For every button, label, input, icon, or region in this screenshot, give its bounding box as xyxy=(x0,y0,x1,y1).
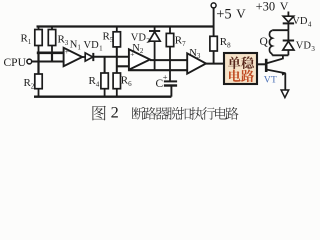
diode VD3 xyxy=(283,30,294,55)
svg-text:+: + xyxy=(163,72,168,82)
svg-text:7: 7 xyxy=(182,40,186,48)
svg-text:2: 2 xyxy=(140,47,144,55)
zener VD2 xyxy=(149,27,160,71)
svg-text:3: 3 xyxy=(65,39,69,47)
resistor R6 xyxy=(113,73,120,97)
op-amp N2 label xyxy=(132,43,144,55)
resistor R3 label xyxy=(58,34,69,48)
svg-text:V: V xyxy=(280,0,289,13)
op-amp N1 xyxy=(64,47,83,66)
CPU label xyxy=(4,57,27,69)
capacitor C xyxy=(164,81,177,96)
svg-text:CPU: CPU xyxy=(4,57,27,69)
resistor R4 label xyxy=(89,75,100,89)
resistor R8 label xyxy=(220,36,231,50)
svg-text:VD: VD xyxy=(131,33,147,44)
caption: Fig.2 breaker trip execution circuit xyxy=(92,103,238,122)
wire to N2 inverting input xyxy=(117,65,129,67)
resistor R5 label xyxy=(103,31,114,45)
transistor VT label xyxy=(264,74,277,85)
wire node to R4 xyxy=(104,57,106,73)
ground arrow (emitter to ground) xyxy=(281,90,289,98)
node CPU terminal xyxy=(27,59,32,64)
wire R7 to capacitor xyxy=(169,47,171,82)
wire node A to CPU line xyxy=(51,53,53,62)
transistor VT xyxy=(266,55,286,90)
capacitor C label xyxy=(156,72,168,90)
wire R1 column to R2 xyxy=(37,53,39,74)
wire top +5V rail xyxy=(37,25,215,27)
resistor R8 xyxy=(210,36,217,63)
resistor R1 label xyxy=(21,33,32,47)
svg-text:1: 1 xyxy=(77,44,81,52)
svg-text:VD: VD xyxy=(292,16,308,27)
+30 V label xyxy=(256,0,289,13)
svg-text:4: 4 xyxy=(308,20,312,28)
svg-text:1: 1 xyxy=(28,38,32,46)
resistor R1 xyxy=(35,27,42,53)
relay coil Q label xyxy=(260,36,269,48)
wire CPU input xyxy=(32,60,64,62)
wire coil top xyxy=(272,29,288,31)
diode VD3 label xyxy=(296,41,316,53)
svg-text:+5: +5 xyxy=(216,6,231,22)
op-amp N1 label xyxy=(70,39,82,51)
svg-text:+: + xyxy=(65,47,69,56)
resistor R2 xyxy=(35,74,42,97)
svg-text:3: 3 xyxy=(197,52,201,60)
svg-text:VD: VD xyxy=(296,41,312,52)
svg-text:8: 8 xyxy=(227,42,231,50)
zener VD4 label xyxy=(292,16,312,28)
wire lower bus to N3 xyxy=(128,69,187,71)
wire VD1 to N2 xyxy=(93,56,129,58)
svg-text:6: 6 xyxy=(128,80,132,88)
resistor R5 xyxy=(113,27,120,47)
node +5V terminal xyxy=(211,3,216,8)
svg-text:+30: +30 xyxy=(256,0,276,13)
diode VD1 xyxy=(82,53,93,61)
op-amp N3 xyxy=(187,53,206,73)
resistor R3 xyxy=(48,27,55,54)
wire R5 to R6 column xyxy=(116,47,118,73)
resistor R2 label xyxy=(24,77,35,91)
wire N3 output xyxy=(206,63,224,65)
svg-text:2: 2 xyxy=(111,103,119,122)
resistor R7 label xyxy=(175,35,186,49)
wire box to VT base xyxy=(257,63,265,65)
relay coil Q xyxy=(269,30,272,53)
op-amp N3 label xyxy=(189,48,201,60)
wire N2 output xyxy=(150,59,187,61)
svg-text:4: 4 xyxy=(96,81,100,89)
resistor R4 xyxy=(101,73,108,97)
svg-text:V: V xyxy=(236,6,246,21)
op-amp N2 xyxy=(129,49,150,69)
resistor R6 label xyxy=(121,75,132,89)
wire bottom rail xyxy=(34,96,171,98)
monostable circuit box (dan-wen dian-lu) xyxy=(224,53,257,84)
svg-text:VD: VD xyxy=(84,40,100,51)
+5 V label xyxy=(216,6,246,22)
diode VD1 label xyxy=(84,40,104,52)
svg-text:Q: Q xyxy=(260,36,269,48)
wire +5V to R8 xyxy=(213,8,215,36)
resistor R7 xyxy=(166,27,173,47)
wire coil bottom xyxy=(272,54,288,56)
svg-text:1: 1 xyxy=(99,44,103,52)
svg-text:VT: VT xyxy=(264,74,277,85)
zener VD2 label xyxy=(131,33,151,45)
node A bus bar xyxy=(37,51,64,54)
zener VD4 xyxy=(283,12,294,31)
svg-text:3: 3 xyxy=(311,45,315,53)
